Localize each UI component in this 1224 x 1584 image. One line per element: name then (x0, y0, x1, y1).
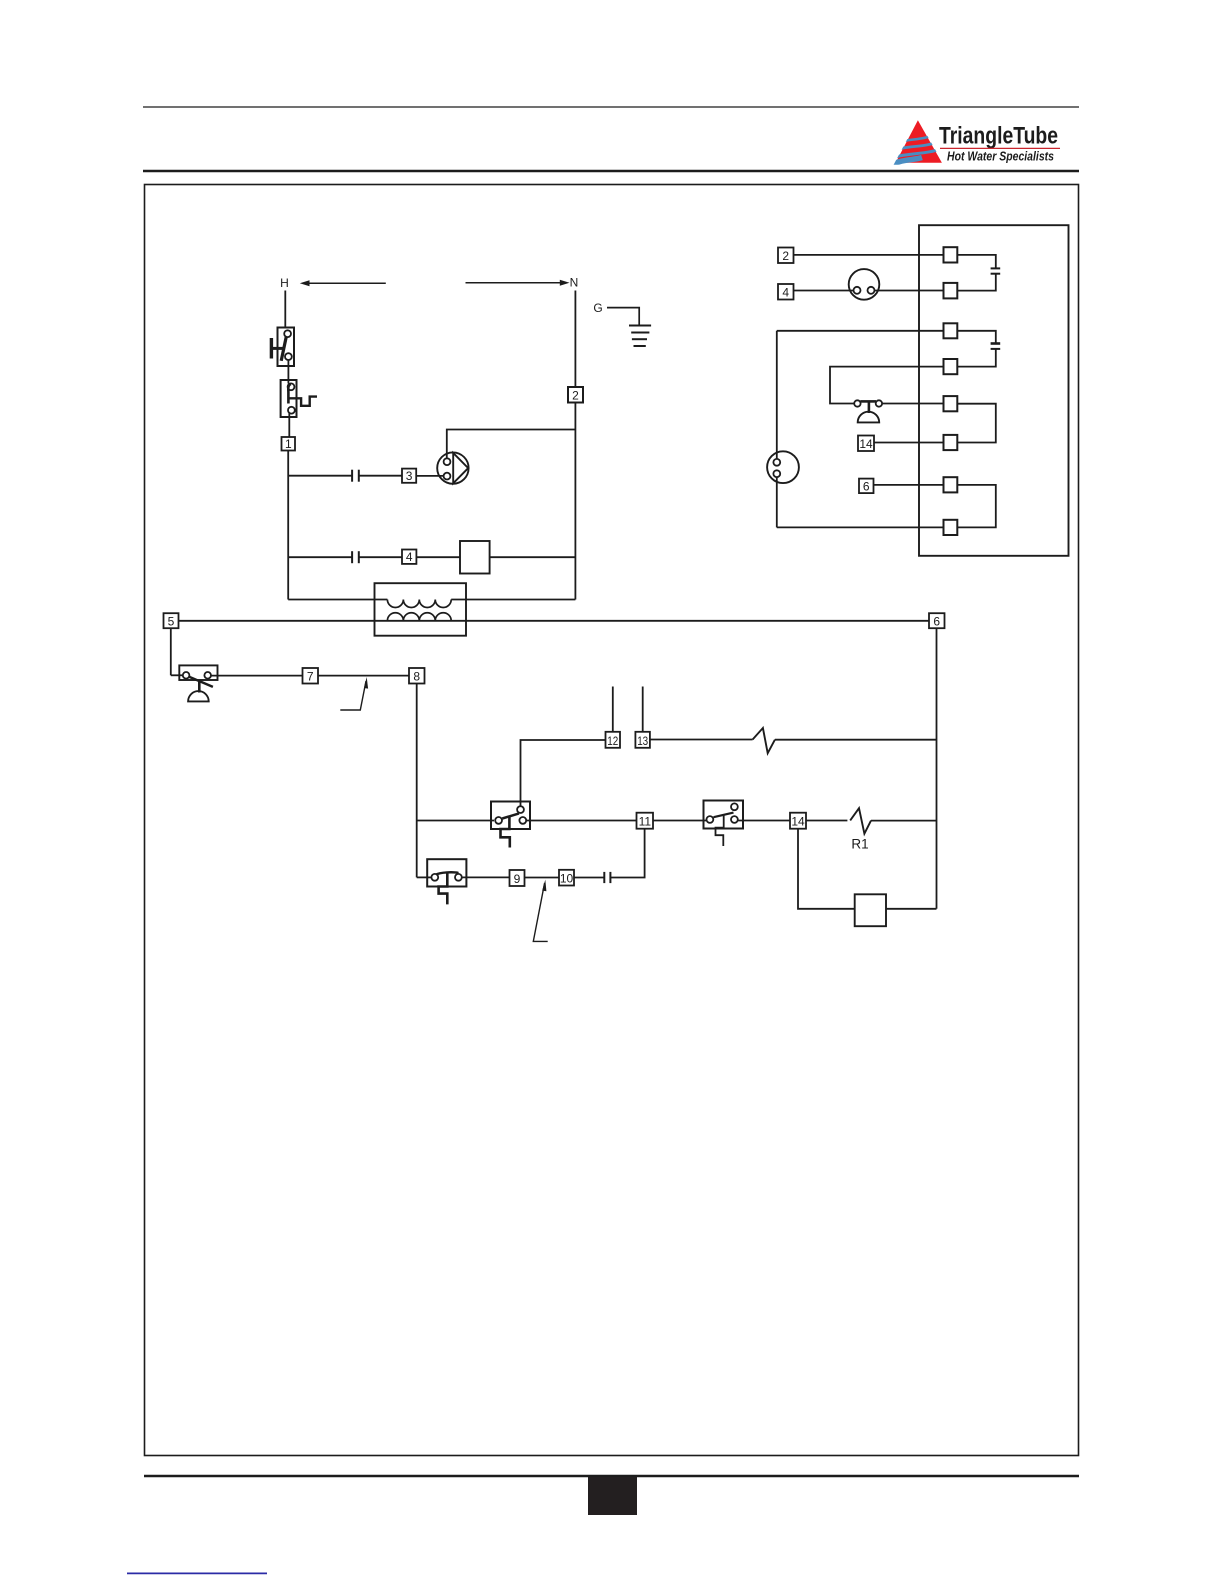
ground (629, 326, 651, 347)
svg-text:12: 12 (607, 734, 618, 748)
wire module to N (490, 556, 576, 558)
wire 10 to capacitor (574, 877, 604, 879)
svg-text:10: 10 (560, 872, 574, 886)
capacitor (interlock) lower row (604, 872, 610, 883)
header rule thick (143, 170, 1079, 173)
switch K3 (limit contact) (427, 859, 466, 904)
terminal T3 (944, 323, 958, 338)
wire R1 to right riser (871, 820, 937, 822)
svg-text:13: 13 (637, 734, 648, 748)
wire T4 to limit (830, 367, 944, 404)
terminal T8 (944, 520, 958, 535)
wire K2 to node 14 (738, 820, 790, 822)
node 2 (568, 387, 583, 403)
wire (359, 475, 402, 477)
wire 7 to 8 (318, 675, 409, 677)
node 7 (303, 668, 319, 684)
node 6b (859, 479, 874, 494)
wire pump top to N (447, 430, 576, 459)
wire N riser lower (574, 403, 576, 600)
svg-text:7: 7 (307, 670, 314, 684)
wire to node 7 (211, 675, 303, 677)
wire S1 to S2 (287, 360, 289, 384)
svg-text:4: 4 (406, 550, 413, 564)
circuit drawn below (164, 225, 1069, 941)
terminal T7 (944, 477, 958, 492)
node 14b (858, 436, 874, 452)
relay contact K2 (704, 801, 744, 847)
svg-text:2: 2 (572, 389, 579, 403)
node 4b (778, 284, 794, 300)
svg-text:8: 8 (413, 670, 420, 684)
wire T3 to left loop (777, 330, 944, 332)
wire node5 down (170, 628, 172, 675)
resistor R1 squiggle (850, 808, 871, 834)
node 13 (635, 732, 650, 748)
node 10 (559, 870, 574, 886)
wire lower row from riser (417, 876, 432, 878)
wire K1 coil feed up (521, 740, 606, 806)
wire middle row (417, 820, 494, 822)
node 11 (637, 813, 654, 829)
logo TriangleTube (889, 120, 1060, 167)
node 4 (402, 550, 416, 564)
switch S2 (safety/flow switch) (281, 380, 317, 417)
svg-text:G: G (593, 301, 602, 315)
svg-text:5: 5 (168, 614, 175, 628)
capacitor (interlock) row 4 (352, 551, 359, 563)
high limit switch (854, 400, 882, 422)
left loop riser upper (776, 331, 778, 459)
igniter plug connector (849, 269, 880, 300)
transformer T1 (288, 583, 575, 636)
svg-text:N: N (570, 276, 579, 290)
svg-text:3: 3 (406, 469, 413, 483)
svg-text:2: 2 (782, 249, 789, 263)
wire to pump (416, 475, 444, 477)
wire node14 down to relay coil (798, 829, 855, 909)
diagram border frame (145, 185, 1079, 1456)
wire K3 to node 9 (462, 876, 510, 878)
wire H down (284, 291, 286, 328)
wire S2 to node 1 (288, 413, 290, 437)
wire 4b to plug (794, 290, 854, 292)
svg-text:H: H (280, 276, 289, 290)
node 1 (282, 437, 296, 451)
terminal T5 (944, 396, 958, 411)
jumper T3-T4 with capacitor (957, 331, 1000, 367)
breaker squiggle (753, 728, 775, 753)
wire loop to T8 (777, 526, 944, 528)
svg-text:R1: R1 (851, 836, 868, 851)
aquastat switch (171, 665, 218, 701)
svg-text:4: 4 (782, 286, 789, 300)
left loop riser lower (776, 477, 778, 527)
wire (359, 556, 402, 558)
wire N riser (574, 291, 576, 388)
wire 14b to T6 (874, 442, 944, 444)
node 2b (778, 248, 794, 264)
wire squiggle to right riser (775, 739, 937, 741)
wire coil to right riser (886, 908, 937, 910)
footer blue underline (127, 1572, 267, 1574)
terminal T1 (944, 247, 958, 262)
wire 6b to T7 (874, 484, 944, 486)
svg-text:Hot Water Specialists: Hot Water Specialists (947, 149, 1054, 164)
node 5 (164, 613, 179, 628)
relay contact K1 (with heater flag) (491, 802, 530, 848)
footer rule (144, 1475, 1079, 1477)
wire limit to T5 (882, 403, 943, 405)
pump P1 (circulator) (437, 452, 468, 483)
footer black box (588, 1477, 637, 1515)
svg-text:9: 9 (514, 872, 521, 886)
bus wire 5 to 6 (179, 620, 930, 622)
ignition module (460, 541, 490, 574)
stub above 13 (642, 687, 644, 732)
wire to module (416, 556, 460, 558)
wire 13 to squiggle (650, 739, 753, 741)
wire plug to T2 (875, 290, 944, 292)
leader arrow to wire 9-10 (533, 880, 547, 942)
node 14 (790, 813, 806, 829)
svg-text:TriangleTube: TriangleTube (939, 123, 1058, 150)
wire capacitor to node 11 riser (610, 829, 644, 878)
node 8 (409, 668, 425, 684)
switch S1 (service switch) (270, 328, 294, 367)
stub above 12 (612, 687, 614, 732)
wire K1 to node 11 (526, 820, 637, 822)
wire G to ground (607, 308, 639, 326)
svg-text:1: 1 (285, 437, 292, 451)
svg-text:14: 14 (859, 437, 873, 451)
arrow to H (300, 280, 386, 286)
wire node8 down (416, 684, 418, 878)
wire row 3 (288, 475, 352, 477)
svg-text:11: 11 (639, 815, 652, 829)
wire row 4 (288, 556, 352, 558)
wire 11 to relay K2 (653, 820, 706, 822)
wire 14 to R1 (806, 820, 847, 822)
svg-text:6: 6 (933, 614, 940, 628)
jumper T7-T8 (957, 485, 996, 528)
capacitor (interlock) row 3 (352, 470, 359, 482)
wire 2b to T1 (794, 254, 944, 256)
leader arrow to wire 7-8 (340, 677, 368, 710)
relay coil R1 box (855, 894, 886, 926)
wire 9 to 10 (525, 877, 560, 879)
node 3 (402, 469, 416, 483)
terminal T2 (944, 283, 958, 299)
node 9 (510, 870, 525, 886)
terminal board outline (919, 225, 1069, 556)
wire left riser (287, 451, 289, 600)
terminal T6 (944, 435, 958, 450)
sensor plug connector (767, 451, 799, 483)
svg-text:14: 14 (791, 815, 805, 829)
terminal T4 (944, 359, 958, 374)
jumper T1-T2 with capacitor (957, 255, 1000, 291)
arrow to N (466, 280, 570, 286)
svg-text:6: 6 (863, 479, 870, 493)
jumper T5-T6 (957, 404, 996, 443)
right riser from node 6 (936, 628, 938, 909)
node 12 (606, 732, 621, 748)
header rule top (143, 106, 1079, 108)
node 6 (929, 613, 945, 628)
